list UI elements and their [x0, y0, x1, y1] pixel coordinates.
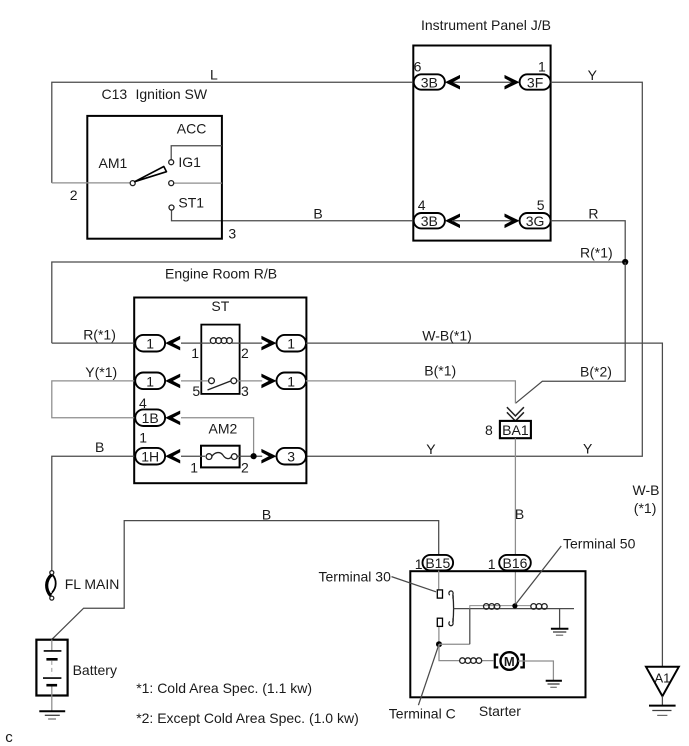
contact IG1 middle: [169, 181, 174, 186]
battery plate long top: [44, 650, 62, 652]
svg-text:B: B: [95, 439, 104, 455]
svg-text:1: 1: [287, 336, 295, 352]
ground below A1: [649, 705, 676, 707]
svg-text:1: 1: [146, 336, 154, 352]
relay box U2 Engine Room R/B: [134, 298, 306, 484]
svg-text:Starter: Starter: [479, 703, 521, 719]
connector 1H pin 1: [135, 448, 165, 465]
svg-text:3G: 3G: [526, 213, 545, 229]
connector B16 pin 1: [499, 555, 531, 571]
wire R(*1) from junction to left column: [52, 262, 625, 343]
junction node AM2/1B: [251, 453, 257, 459]
solenoid hold-in coil: [531, 604, 537, 610]
svg-text:1: 1: [191, 345, 199, 361]
svg-text:(*1): (*1): [634, 500, 657, 516]
svg-text:W-B(*1): W-B(*1): [422, 327, 472, 343]
svg-text:*2: Except Cold Area Spec. (1.: *2: Except Cold Area Spec. (1.0 kw): [136, 710, 359, 726]
svg-text:R(*1): R(*1): [580, 245, 613, 261]
svg-text:Y: Y: [426, 441, 436, 457]
connector 3 row4 right: [277, 448, 307, 465]
svg-text:1: 1: [538, 58, 546, 74]
svg-text:W-B: W-B: [633, 482, 660, 498]
fusible link FL MAIN: [50, 571, 54, 575]
wire inside J/B between 3B(6) and 3F(1): [452, 81, 512, 83]
wire Y(*1) from connector 1 to 1B: [52, 381, 140, 418]
svg-text:Instrument Panel J/B: Instrument Panel J/B: [421, 17, 551, 33]
svg-text:B: B: [515, 506, 524, 522]
ground point A1 triangle: [646, 667, 679, 696]
battery plate short bottom: [46, 684, 57, 687]
switch lever: [135, 167, 167, 182]
svg-text:1H: 1H: [141, 449, 159, 465]
relay coil ST pins 1-2: [210, 338, 216, 344]
relay contact right pin 3: [231, 378, 237, 384]
connector 3B pin 6: [414, 74, 445, 89]
arrow into connector 3: [261, 449, 276, 464]
wire B(*2) vertical and horizontal to BA1 diagonal: [516, 262, 626, 403]
svg-text:L: L: [210, 67, 218, 83]
svg-text:B15: B15: [425, 555, 450, 571]
svg-text:Battery: Battery: [73, 662, 117, 678]
contact ST1: [169, 205, 174, 210]
svg-text:2: 2: [241, 460, 249, 476]
svg-text:AM2: AM2: [209, 420, 238, 436]
svg-text:Terminal 30: Terminal 30: [319, 569, 392, 585]
relay contact left pin 5: [209, 378, 215, 384]
junction node terminal 50: [512, 603, 517, 608]
solenoid moving contact upper hook: [449, 591, 453, 599]
connector 3F pin 1: [520, 74, 551, 89]
svg-text:Terminal C: Terminal C: [389, 706, 456, 722]
connector 1 row1 left: [135, 335, 165, 352]
wire R from 3G(5) to right-side junction: [551, 221, 626, 262]
connector BA1: [500, 421, 531, 438]
junction box U1 Instrument Panel J/B: [413, 46, 550, 241]
svg-text:c: c: [5, 729, 13, 746]
switch S1 C13 Ignition SW box: [87, 116, 222, 239]
wire B(*1) from row2 right to BA1: [306, 381, 516, 403]
solenoid moving contact bar: [452, 595, 455, 622]
connector B15 pin 1: [423, 555, 454, 571]
wire A1 to ground: [661, 696, 663, 705]
solenoid output line: [454, 608, 574, 610]
wire from 1B arrow to AM2 output junction: [181, 418, 254, 456]
svg-text:C13: C13: [102, 86, 128, 102]
svg-text:3F: 3F: [527, 74, 543, 90]
terminal 30 contact rectangle: [437, 590, 442, 598]
arrow into right connector row1: [261, 336, 276, 351]
wire from BA1 down to B16: [514, 438, 516, 606]
svg-text:5: 5: [192, 383, 200, 399]
arrow into 3B(4): [445, 214, 460, 229]
svg-text:1: 1: [190, 460, 198, 476]
wire coil row inside: [181, 342, 262, 344]
svg-text:ST: ST: [211, 298, 229, 314]
connector 1B pin 4: [135, 409, 165, 426]
svg-text:1: 1: [146, 373, 154, 389]
wire solenoid to ground: [559, 609, 561, 629]
svg-text:B16: B16: [503, 555, 528, 571]
svg-text:B: B: [262, 507, 271, 523]
relay ST box: [201, 325, 239, 394]
svg-text:1: 1: [287, 373, 295, 389]
contact IG1: [169, 160, 174, 165]
arrow into right connector row2: [261, 374, 276, 389]
svg-text:4: 4: [418, 197, 426, 213]
svg-text:2: 2: [70, 187, 78, 203]
wire B15 to terminal 30: [438, 571, 440, 590]
arrow into 3G(5): [505, 214, 520, 229]
wire switch row inside: [181, 380, 262, 382]
callout line Terminal C: [418, 644, 439, 705]
battery internal wire top: [51, 640, 53, 651]
svg-text:3: 3: [287, 449, 295, 465]
arrow into connector 1 row1: [165, 336, 180, 351]
ground below battery: [39, 710, 65, 712]
wire IG1 contact to box edge: [174, 182, 222, 184]
svg-text:Engine Room R/B: Engine Room R/B: [165, 266, 277, 282]
svg-text:1: 1: [488, 556, 496, 572]
svg-text:AM1: AM1: [99, 155, 128, 171]
wire Y from 3F(1) down right side to Engine Room R/B connector 3: [306, 82, 643, 456]
wire AM2 output to connector 3: [238, 455, 263, 457]
wire motor to ground: [518, 661, 553, 680]
svg-text:*1: Cold Area Spec. (1.1 kw): *1: Cold Area Spec. (1.1 kw): [136, 680, 312, 696]
svg-text:ACC: ACC: [177, 120, 207, 136]
battery BAT1 box: [36, 640, 67, 696]
battery wire to ground: [51, 687, 53, 712]
svg-text:B: B: [313, 206, 322, 222]
terminal C contact rectangle: [437, 618, 442, 626]
battery plate short top: [46, 658, 57, 661]
solenoid moving contact lower hook: [449, 618, 453, 625]
arrow into 3F(1): [505, 75, 520, 90]
svg-text:B(*1): B(*1): [424, 362, 456, 378]
battery plate long bottom: [43, 677, 61, 679]
svg-text:1: 1: [139, 430, 147, 446]
arrow into 1H: [165, 449, 180, 464]
fuse element AM2: [206, 454, 212, 460]
svg-text:3: 3: [228, 226, 236, 242]
svg-text:Y: Y: [588, 67, 598, 83]
wire R(*1) row into connector 1: [52, 342, 140, 344]
fuse AM2 box: [201, 446, 240, 468]
arrow into connector 1 row2: [165, 374, 180, 389]
connector 3G pin 5: [520, 213, 551, 228]
wire motor branch: [439, 644, 493, 660]
wire junction to solenoid line: [439, 643, 470, 645]
contact AM1 pivot: [130, 181, 135, 186]
arrow into 3B(6): [445, 75, 460, 90]
motor field coil: [460, 658, 466, 664]
svg-text:R(*1): R(*1): [83, 326, 116, 342]
battery dashed link: [51, 661, 53, 675]
wire AM1 into pivot: [52, 182, 131, 184]
svg-text:Y: Y: [583, 440, 593, 456]
svg-text:2: 2: [241, 345, 249, 361]
callout line Terminal 50: [516, 546, 562, 605]
svg-text:ST1: ST1: [178, 195, 204, 211]
svg-text:3B: 3B: [421, 74, 438, 90]
double chevron arrows into BA1: [507, 407, 524, 421]
starter M1 box: [410, 571, 585, 697]
junction node on R wire: [622, 259, 628, 265]
svg-text:M: M: [504, 654, 515, 669]
motor M1 circle: [501, 652, 519, 670]
svg-text:R: R: [588, 206, 598, 222]
svg-text:3: 3: [241, 383, 249, 399]
wire ACC from IG1 contact up to box edge: [171, 146, 222, 160]
ground solenoid: [551, 628, 569, 630]
svg-text:3B: 3B: [421, 213, 438, 229]
wire B from battery to B15: [52, 521, 439, 640]
svg-text:FL MAIN: FL MAIN: [65, 576, 120, 592]
relay switch blade: [208, 381, 232, 390]
wire B from ST1 to 3B pin 4: [172, 210, 445, 221]
solenoid coil bypass line: [470, 606, 531, 609]
svg-text:6: 6: [414, 58, 422, 74]
junction node terminal C: [436, 641, 442, 647]
wire L from ignition SW terminal 2 to connector 3B pin 6: [52, 82, 445, 183]
wire B from 1H to battery column: [52, 456, 140, 571]
svg-text:4: 4: [139, 395, 147, 411]
svg-text:1: 1: [415, 556, 423, 572]
motor M1 bracket right: [520, 655, 524, 668]
connector 1 row2 right: [277, 373, 307, 390]
wire W-B(*1) from row1 right to A1 column: [306, 343, 663, 667]
solenoid pull-in coil: [484, 604, 490, 610]
svg-text:1B: 1B: [142, 410, 159, 426]
svg-text:Ignition SW: Ignition SW: [136, 86, 208, 102]
motor M1 bracket left: [495, 655, 499, 668]
svg-text:Y(*1): Y(*1): [85, 364, 117, 380]
arrow into 1B: [165, 411, 180, 426]
svg-text:5: 5: [537, 197, 545, 213]
svg-text:Terminal 50: Terminal 50: [563, 536, 636, 552]
ground motor: [546, 680, 562, 682]
svg-text:8: 8: [485, 422, 493, 438]
wire terminal C down to junction: [438, 627, 440, 644]
svg-text:BA1: BA1: [502, 422, 529, 438]
svg-text:B(*2): B(*2): [580, 364, 612, 380]
callout line Terminal 30: [392, 577, 437, 592]
svg-text:A1: A1: [654, 670, 670, 685]
svg-text:IG1: IG1: [178, 154, 201, 170]
connector 1 row1 right: [277, 335, 307, 352]
wire inside J/B between 3B(4) and 3G(5): [452, 220, 512, 222]
connector 1 row2 left: [135, 373, 165, 390]
wire row4 into AM2: [181, 455, 205, 457]
connector 3B pin 4: [414, 213, 445, 228]
